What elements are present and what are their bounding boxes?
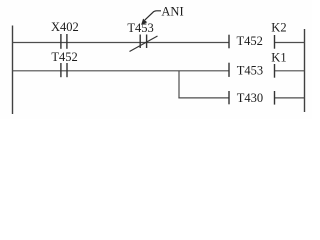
svg-text:T453: T453 — [237, 64, 263, 78]
svg-text:T452: T452 — [51, 50, 77, 64]
contact T453 (normally closed) — [130, 35, 158, 52]
svg-text:T430: T430 — [237, 91, 263, 105]
arrow from ANI to contact T453 — [141, 11, 161, 25]
wire rung1 left segment — [13, 42, 230, 44]
wire rung3 right segment — [275, 97, 305, 99]
left power rail — [12, 26, 14, 115]
wire rung3 left segment — [178, 97, 229, 99]
svg-text:X402: X402 — [51, 20, 79, 34]
coil T453 right pin — [274, 64, 276, 78]
contact T452 (normally open, rung2) — [61, 63, 67, 77]
svg-text:K1: K1 — [271, 51, 286, 65]
svg-text:ANI: ANI — [161, 4, 183, 18]
wire branch vertical — [178, 71, 180, 98]
coil T453 left pin — [228, 63, 230, 77]
wire rung2 left segment — [13, 70, 230, 72]
contact X402 (normally open) — [61, 34, 67, 49]
svg-text:T453: T453 — [127, 21, 153, 35]
coil T430 right pin — [274, 91, 276, 105]
svg-text:K2: K2 — [271, 21, 286, 35]
svg-text:T452: T452 — [237, 34, 263, 48]
coil T430 left pin — [228, 91, 230, 104]
coil T452 left pin — [228, 35, 230, 49]
coil T452 right pin — [274, 35, 276, 49]
right power rail — [304, 29, 306, 112]
wire rung2 right segment — [275, 70, 305, 72]
wire rung1 right segment — [275, 42, 305, 44]
